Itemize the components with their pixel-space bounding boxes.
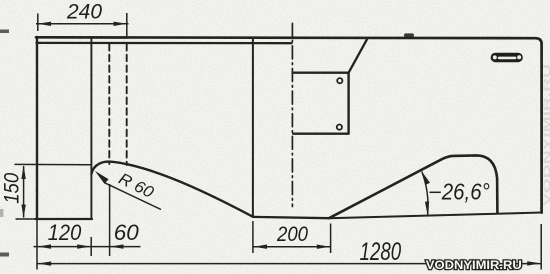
arrowhead 120 right bbox=[77, 244, 90, 248]
node: bracket hole upper bbox=[337, 78, 342, 83]
wire: top edge (deck line) with rounded top-right corner and right edge bbox=[36, 37, 542, 212]
wire: rear hump (skeg) outline bbox=[329, 155, 497, 218]
dim 1280 line bbox=[38, 263, 541, 265]
arrowhead 120 left bbox=[38, 244, 51, 248]
node: scan blip on top edge bbox=[404, 33, 414, 37]
dim angle arc bbox=[422, 172, 428, 215]
dim 150 extension bottom bbox=[16, 218, 37, 220]
dim 60 extension right bbox=[109, 184, 111, 256]
wire: transom cut diagonal bbox=[349, 39, 368, 73]
node: bracket hole lower bbox=[337, 125, 342, 130]
wire: motor bracket plate top/right/bottom bbox=[293, 73, 349, 134]
arrowhead 240 left bbox=[38, 22, 51, 26]
dim 200 extension right bbox=[330, 224, 332, 254]
wire: flat keel section between chine lines bbox=[253, 217, 329, 218]
dim 240 line bbox=[36, 23, 129, 25]
arrowhead R60 leader bbox=[95, 171, 109, 184]
wire: dashed bend line 1 bbox=[108, 44, 110, 164]
node: scan artifact top-left border bbox=[0, 30, 9, 34]
wire: left edge of hull panel bbox=[36, 37, 38, 219]
wire: solid vertical frame line at x=253 bbox=[252, 38, 254, 217]
node: scan artifact bottom-left border bbox=[0, 253, 9, 257]
arrowhead 150 bottom bbox=[21, 205, 25, 219]
dim 1280 extension right bbox=[540, 224, 542, 270]
node: handle slot top-right bbox=[491, 53, 523, 63]
arrowhead 240 right bbox=[114, 22, 127, 26]
dim 120 extension right (bend line extended) bbox=[90, 237, 92, 256]
dim 200 extension left bbox=[252, 221, 254, 253]
node: scan artifact mid-left border bbox=[0, 209, 4, 217]
wire: dashed bend line 2 bbox=[126, 44, 128, 165]
arrowhead angle bottom bbox=[425, 201, 429, 215]
arrowhead 1280 right bbox=[527, 261, 540, 265]
arrowhead 1280 left bbox=[38, 261, 51, 265]
wire: dash-dot transom bend centerline bbox=[291, 23, 293, 206]
wire: bottom of front notch bbox=[36, 218, 93, 220]
dim 120/60 line bbox=[34, 246, 141, 248]
dim angle leader to text bbox=[430, 191, 441, 193]
leader line R60 bbox=[105, 183, 162, 210]
dim 240 extension right bbox=[126, 13, 128, 37]
arrowhead 200 left bbox=[254, 245, 267, 249]
arrowhead 150 top bbox=[21, 165, 25, 179]
wire: flange fold line below top edge bbox=[37, 42, 292, 45]
wire: R60 curve into long descending chine line bbox=[91, 162, 253, 217]
watermark: site name bottom right bbox=[426, 260, 522, 272]
dim 240 extension left bbox=[37, 14, 39, 32]
dim 150 extension top bbox=[15, 163, 91, 165]
arrowhead 200 right bbox=[317, 245, 330, 249]
arrowhead angle top bbox=[422, 171, 430, 185]
dim 150 line bbox=[23, 166, 25, 218]
dim 1280 extension left bbox=[36, 220, 38, 270]
wire: bend line vertical at x=91 bbox=[90, 38, 92, 219]
arrowhead 60 outside-left pointing bbox=[110, 244, 124, 248]
wire: baseline under hump to bottom-right corner bbox=[329, 213, 542, 219]
dim 200 line bbox=[253, 246, 330, 248]
